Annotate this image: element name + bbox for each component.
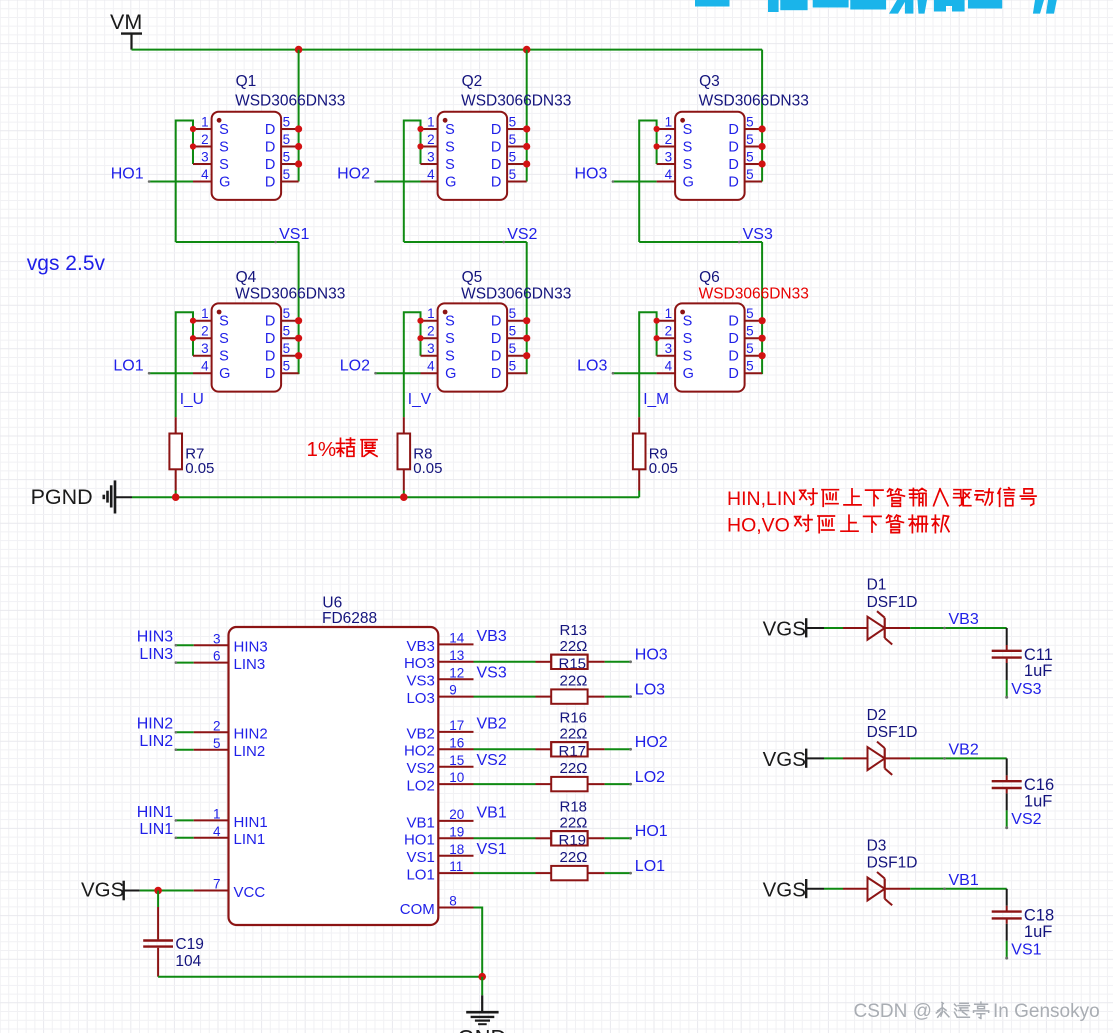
svg-text:1: 1 xyxy=(201,306,209,321)
svg-text:Q4: Q4 xyxy=(236,269,257,286)
wire LO1 from pin xyxy=(474,872,536,874)
svg-text:0.05: 0.05 xyxy=(185,460,214,477)
wire VB2 xyxy=(910,757,1007,759)
svg-text:D: D xyxy=(491,157,501,173)
svg-text:1: 1 xyxy=(665,306,673,321)
transistor Q2 xyxy=(421,112,527,200)
svg-text:COM: COM xyxy=(400,901,435,918)
svg-text:VS2: VS2 xyxy=(1011,811,1041,828)
svg-text:22Ω: 22Ω xyxy=(560,849,588,866)
svg-text:1: 1 xyxy=(201,115,209,130)
wire VB3 drop xyxy=(1006,628,1008,645)
svg-text:D: D xyxy=(728,331,738,347)
svg-text:22Ω: 22Ω xyxy=(560,638,588,655)
svg-text:VGS: VGS xyxy=(763,748,806,771)
svg-text:VB3: VB3 xyxy=(406,638,434,655)
svg-text:D: D xyxy=(728,122,738,138)
junction Q1 drain pins xyxy=(295,125,302,132)
junction GND xyxy=(478,973,486,981)
svg-text:HIN3: HIN3 xyxy=(234,639,268,656)
junction Q4 pin2 xyxy=(190,335,196,341)
svg-text:D: D xyxy=(491,314,501,330)
svg-text:4: 4 xyxy=(427,359,435,374)
svg-text:VGS: VGS xyxy=(763,878,806,901)
svg-text:S: S xyxy=(683,122,693,138)
svg-text:LIN3: LIN3 xyxy=(139,646,173,663)
svg-text:S: S xyxy=(219,331,229,347)
wire HO3 from pin xyxy=(474,661,536,663)
svg-text:5: 5 xyxy=(283,324,291,339)
svg-text:1: 1 xyxy=(427,306,435,321)
svg-text:I_U: I_U xyxy=(180,391,204,408)
svg-text:LIN1: LIN1 xyxy=(234,831,266,848)
svg-text:VS3: VS3 xyxy=(743,226,773,243)
svg-text:D: D xyxy=(265,140,275,156)
svg-text:3: 3 xyxy=(201,341,209,356)
junction Q4 pin1 xyxy=(190,318,196,324)
wire LO3 out xyxy=(605,696,631,698)
svg-text:S: S xyxy=(445,140,455,156)
svg-text:S: S xyxy=(683,157,693,173)
svg-text:D: D xyxy=(265,157,275,173)
svg-text:4: 4 xyxy=(665,167,673,182)
svg-text:G: G xyxy=(445,175,456,191)
svg-text:Q1: Q1 xyxy=(236,73,257,90)
wire VB3 xyxy=(910,627,1007,629)
svg-text:WSD3066DN33: WSD3066DN33 xyxy=(461,93,571,110)
transistor Q1 xyxy=(193,112,299,200)
wire LO2 out xyxy=(605,783,631,785)
svg-text:14: 14 xyxy=(449,631,465,646)
svg-text:VCC: VCC xyxy=(234,884,266,901)
svg-text:S: S xyxy=(219,349,229,365)
resistor R19 xyxy=(536,831,605,845)
svg-text:S: S xyxy=(219,314,229,330)
wire drain rail drop Q2 xyxy=(526,50,528,182)
svg-text:2: 2 xyxy=(201,132,209,147)
wire VGS to D2 xyxy=(824,757,843,759)
svg-text:LO1: LO1 xyxy=(406,867,434,884)
svg-text:HIN2: HIN2 xyxy=(234,726,268,743)
svg-text:3: 3 xyxy=(427,150,435,165)
svg-text:1: 1 xyxy=(665,115,673,130)
svg-text:D: D xyxy=(728,349,738,365)
svg-text:3: 3 xyxy=(665,150,673,165)
svg-text:R13: R13 xyxy=(560,622,588,639)
svg-text:Q6: Q6 xyxy=(699,269,720,286)
svg-text:3: 3 xyxy=(201,150,209,165)
svg-text:LO1: LO1 xyxy=(635,858,665,875)
svg-text:G: G xyxy=(445,366,456,382)
svg-text:2: 2 xyxy=(213,718,221,733)
svg-text:S: S xyxy=(445,331,455,347)
svg-text:5: 5 xyxy=(746,341,754,356)
svg-text:HO1: HO1 xyxy=(111,166,144,183)
wire VS1 below C18 xyxy=(1005,924,1008,960)
junction PGND R8 xyxy=(400,493,408,501)
svg-text:5: 5 xyxy=(283,132,291,147)
svg-text:22Ω: 22Ω xyxy=(560,725,588,742)
wire VGS to D1 xyxy=(824,627,843,629)
svg-text:S: S xyxy=(445,157,455,173)
svg-text:5: 5 xyxy=(283,167,291,182)
junction Q2 drain pins xyxy=(523,125,530,132)
resistor RLO3 xyxy=(536,689,605,703)
capacitor C18 xyxy=(992,906,1022,924)
svg-text:G: G xyxy=(683,366,694,382)
junction at Q1 drain rail xyxy=(295,46,303,54)
svg-text:5: 5 xyxy=(746,115,754,130)
svg-text:5: 5 xyxy=(509,341,517,356)
svg-text:S: S xyxy=(219,122,229,138)
svg-text:WSD3066DN33: WSD3066DN33 xyxy=(235,93,345,110)
diode D3 xyxy=(843,872,910,905)
svg-text:1uF: 1uF xyxy=(1024,662,1052,680)
svg-text:LO3: LO3 xyxy=(406,690,434,707)
svg-text:2: 2 xyxy=(427,132,435,147)
svg-text:WSD3066DN33: WSD3066DN33 xyxy=(699,93,809,110)
junction Q6 pin1 xyxy=(654,318,660,324)
junction Q1 pin2 xyxy=(190,143,196,149)
svg-text:2: 2 xyxy=(665,132,673,147)
wire HO1 out xyxy=(605,837,631,839)
svg-text:HO1: HO1 xyxy=(635,823,668,840)
resistor R9 xyxy=(633,417,646,497)
wire LO2 from pin xyxy=(474,783,536,785)
svg-text:D: D xyxy=(491,349,501,365)
wire LIN2 input xyxy=(176,749,194,751)
wire VGS to D3 xyxy=(824,888,843,890)
junction Q5 drain pins xyxy=(523,317,530,324)
svg-text:VB1: VB1 xyxy=(477,805,507,822)
junction Q3 pin2 xyxy=(654,143,660,149)
svg-text:HO,VO: HO,VO xyxy=(727,514,790,536)
transistor Q6 xyxy=(657,303,763,391)
svg-text:D: D xyxy=(491,122,501,138)
wire VB2 drop xyxy=(1006,758,1008,775)
wire LIN3 input xyxy=(176,662,194,664)
svg-text:I_M: I_M xyxy=(643,391,669,408)
label R19 overlapping xyxy=(551,831,587,849)
svg-text:LO3: LO3 xyxy=(577,357,607,374)
svg-text:2: 2 xyxy=(665,324,673,339)
svg-text:D: D xyxy=(265,366,275,382)
svg-text:LO3: LO3 xyxy=(635,681,665,698)
wire HO2 gate xyxy=(376,181,421,183)
svg-text:S: S xyxy=(445,349,455,365)
svg-text:LO2: LO2 xyxy=(635,769,665,786)
resistor RLO1 xyxy=(536,866,605,880)
svg-text:S: S xyxy=(683,314,693,330)
svg-text:D: D xyxy=(265,314,275,330)
junction Q6 drain pins xyxy=(759,317,766,324)
svg-text:VS3: VS3 xyxy=(477,664,507,681)
wire LO3 gate xyxy=(613,372,657,374)
svg-text:10: 10 xyxy=(449,770,464,785)
svg-text:5: 5 xyxy=(746,132,754,147)
svg-text:4: 4 xyxy=(201,359,209,374)
svg-text:5: 5 xyxy=(746,150,754,165)
svg-text:LIN2: LIN2 xyxy=(234,743,266,760)
resistor R8 xyxy=(398,417,411,497)
svg-text:5: 5 xyxy=(283,115,291,130)
svg-text:5: 5 xyxy=(509,115,517,130)
port VGS (D1) xyxy=(763,618,824,641)
wire VS3 below C11 xyxy=(1005,663,1008,699)
svg-text:LO2: LO2 xyxy=(406,778,434,795)
wire LO1 gate xyxy=(149,372,193,374)
svg-text:D: D xyxy=(728,140,738,156)
wire HIN3 input xyxy=(176,644,194,646)
svg-text:G: G xyxy=(219,366,230,382)
wire VB1 xyxy=(910,888,1007,890)
svg-text:5: 5 xyxy=(283,341,291,356)
svg-text:LO1: LO1 xyxy=(113,357,143,374)
svg-text:HO2: HO2 xyxy=(337,166,370,183)
svg-text:5: 5 xyxy=(509,150,517,165)
power flag VM xyxy=(110,10,142,50)
wire HO1 from pin xyxy=(474,837,536,839)
diode D2 xyxy=(843,742,910,775)
svg-text:D: D xyxy=(265,331,275,347)
svg-text:20: 20 xyxy=(449,807,464,822)
svg-text:0.05: 0.05 xyxy=(413,460,442,477)
svg-text:D: D xyxy=(728,314,738,330)
wire VS2 below C16 xyxy=(1005,793,1008,829)
junction Q2 pin2 xyxy=(417,143,423,149)
junction at Q2 drain rail xyxy=(523,46,531,54)
svg-text:5: 5 xyxy=(213,736,221,751)
resistor R7 xyxy=(169,417,182,497)
wire HIN1 input xyxy=(176,819,194,821)
svg-text:S: S xyxy=(445,314,455,330)
svg-text:DSF1D: DSF1D xyxy=(867,855,918,872)
svg-text:5: 5 xyxy=(746,359,754,374)
note 1% accuracy xyxy=(307,438,378,461)
wire VS1 drop to low side xyxy=(298,242,300,374)
wire VM rail xyxy=(132,49,763,51)
label R17 overlapping xyxy=(551,742,587,760)
svg-text:VB2: VB2 xyxy=(477,716,507,733)
svg-text:LO2: LO2 xyxy=(340,357,370,374)
svg-text:D: D xyxy=(265,175,275,191)
svg-text:Q2: Q2 xyxy=(462,73,483,90)
svg-text:HO3: HO3 xyxy=(574,166,607,183)
svg-text:S: S xyxy=(445,122,455,138)
svg-text:Q5: Q5 xyxy=(462,269,483,286)
svg-text:S: S xyxy=(219,140,229,156)
wire VS3 drop to low side xyxy=(761,242,763,374)
svg-text:1uF: 1uF xyxy=(1024,923,1052,941)
diode D1 xyxy=(843,611,910,644)
wire PGND rail xyxy=(132,496,639,498)
junction Q5 pin1 xyxy=(417,318,423,324)
svg-text:DSF1D: DSF1D xyxy=(867,724,918,741)
svg-text:7: 7 xyxy=(213,877,221,892)
decor cyan title fragment xyxy=(695,0,1057,14)
wire HO2 out xyxy=(605,748,631,750)
wire HIN2 input xyxy=(176,731,194,733)
svg-text:3: 3 xyxy=(665,341,673,356)
resistor RLO2 xyxy=(536,777,605,791)
svg-text:HO2: HO2 xyxy=(404,743,435,760)
resistor R15 xyxy=(536,655,605,669)
wire drain rail drop Q1 xyxy=(298,50,300,182)
svg-text:WSD3066DN33: WSD3066DN33 xyxy=(461,286,571,303)
wire VS1 horizontal xyxy=(176,241,299,243)
svg-text:S: S xyxy=(683,331,693,347)
junction PGND R7 xyxy=(172,493,180,501)
svg-text:WSD3066DN33: WSD3066DN33 xyxy=(235,286,345,303)
capacitor C19 xyxy=(143,907,173,977)
wire LO3 from pin xyxy=(474,696,536,698)
junction Q3 drain pins xyxy=(759,125,766,132)
port VGS (D2) xyxy=(763,748,824,771)
junction Q1 pin1 xyxy=(190,126,196,132)
svg-text:4: 4 xyxy=(665,359,673,374)
svg-text:LIN2: LIN2 xyxy=(139,733,173,750)
svg-text:3: 3 xyxy=(213,631,221,646)
capacitor C16 xyxy=(992,775,1022,793)
svg-text:HO3: HO3 xyxy=(404,655,435,672)
wire HO3 out xyxy=(605,661,631,663)
capacitor C11 xyxy=(992,645,1022,663)
svg-text:1: 1 xyxy=(427,115,435,130)
svg-text:HIN3: HIN3 xyxy=(137,629,174,646)
svg-text:FD6288: FD6288 xyxy=(322,610,377,627)
svg-text:D: D xyxy=(491,140,501,156)
svg-text:22Ω: 22Ω xyxy=(560,760,588,777)
svg-text:D: D xyxy=(728,157,738,173)
resistor R17 xyxy=(536,742,605,756)
svg-text:D: D xyxy=(265,122,275,138)
note HO,VO gates xyxy=(727,514,949,536)
junction Q3 pin1 xyxy=(654,126,660,132)
svg-text:12: 12 xyxy=(449,665,464,680)
svg-text:HO1: HO1 xyxy=(404,832,435,849)
wire source loop Q6 xyxy=(639,312,656,417)
svg-text:HIN1: HIN1 xyxy=(137,804,174,821)
transistor Q3 xyxy=(657,112,763,200)
svg-text:15: 15 xyxy=(449,753,464,768)
wire LO2 gate xyxy=(376,372,421,374)
svg-text:4: 4 xyxy=(213,824,221,839)
svg-text:18: 18 xyxy=(449,842,464,857)
svg-text:5: 5 xyxy=(509,167,517,182)
label R15 overlapping xyxy=(551,655,587,673)
svg-text:I_V: I_V xyxy=(408,391,432,408)
svg-text:5: 5 xyxy=(283,359,291,374)
svg-text:Q3: Q3 xyxy=(699,73,720,90)
ground PGND xyxy=(31,480,132,513)
svg-text:D3: D3 xyxy=(867,838,887,855)
svg-text:D: D xyxy=(728,175,738,191)
svg-text:GND: GND xyxy=(458,1026,507,1033)
svg-text:HO2: HO2 xyxy=(635,734,668,751)
wire HO3 gate xyxy=(613,181,657,183)
wire HO1 gate xyxy=(149,181,193,183)
svg-text:11: 11 xyxy=(449,859,463,874)
port VGS (VCC) xyxy=(81,879,140,902)
svg-text:D1: D1 xyxy=(867,577,887,594)
svg-text:HO3: HO3 xyxy=(635,647,668,664)
wire source loop Q3 xyxy=(639,121,656,243)
svg-text:In Gensokyo: In Gensokyo xyxy=(993,1001,1100,1022)
svg-text:VS1: VS1 xyxy=(477,841,507,858)
svg-text:1uF: 1uF xyxy=(1024,792,1052,810)
svg-text:4: 4 xyxy=(427,167,435,182)
svg-text:5: 5 xyxy=(509,132,517,147)
ground GND xyxy=(458,995,507,1033)
wire source loop Q1 xyxy=(176,121,193,243)
svg-text:VS3: VS3 xyxy=(1011,681,1041,698)
svg-text:VS1: VS1 xyxy=(279,226,309,243)
svg-text:VB3: VB3 xyxy=(477,628,507,645)
svg-text:R18: R18 xyxy=(560,798,588,815)
svg-text:VB1: VB1 xyxy=(406,814,434,831)
svg-text:VGS: VGS xyxy=(763,618,806,641)
svg-text:13: 13 xyxy=(449,648,464,663)
svg-text:1%: 1% xyxy=(307,438,337,461)
wire GND rail xyxy=(158,976,482,978)
wire source loop Q5 xyxy=(404,312,421,417)
svg-text:G: G xyxy=(683,175,694,191)
svg-text:HIN1: HIN1 xyxy=(234,814,268,831)
svg-text:C19: C19 xyxy=(175,936,203,953)
svg-text:LIN3: LIN3 xyxy=(234,656,266,673)
svg-text:VM: VM xyxy=(110,10,142,34)
svg-text:D: D xyxy=(265,349,275,365)
wire drain rail drop Q3 xyxy=(761,50,763,182)
svg-text:104: 104 xyxy=(175,953,201,970)
svg-text:5: 5 xyxy=(509,324,517,339)
svg-text:G: G xyxy=(219,175,230,191)
svg-text:S: S xyxy=(683,349,693,365)
wire LIN1 input xyxy=(176,837,194,839)
svg-text:CSDN @: CSDN @ xyxy=(854,1001,932,1022)
svg-text:S: S xyxy=(219,157,229,173)
svg-text:19: 19 xyxy=(449,824,464,839)
svg-text:vgs 2.5v: vgs 2.5v xyxy=(27,252,106,275)
IC U6 FD6288 xyxy=(194,627,474,925)
svg-text:VB2: VB2 xyxy=(406,725,434,742)
wire VS3 horizontal xyxy=(639,241,762,243)
svg-text:4: 4 xyxy=(201,167,209,182)
svg-text:8: 8 xyxy=(449,894,457,909)
svg-text:VGS: VGS xyxy=(81,879,124,902)
wire HO2 from pin xyxy=(474,748,536,750)
svg-text:VS1: VS1 xyxy=(406,849,434,866)
svg-text:22Ω: 22Ω xyxy=(560,673,588,690)
svg-text:2: 2 xyxy=(201,324,209,339)
wire C19 top xyxy=(157,891,159,908)
svg-text:LIN1: LIN1 xyxy=(139,821,173,838)
wire source loop Q2 xyxy=(404,121,421,243)
wire to ground symbol xyxy=(481,977,483,996)
svg-text:D2: D2 xyxy=(867,707,887,724)
svg-text:HIN2: HIN2 xyxy=(137,716,174,733)
svg-text:VS2: VS2 xyxy=(477,752,507,769)
port VGS (D3) xyxy=(763,878,824,901)
wire VS2 drop to low side xyxy=(526,242,528,374)
svg-text:17: 17 xyxy=(449,718,464,733)
svg-text:HIN,LIN: HIN,LIN xyxy=(727,488,796,510)
svg-text:VS2: VS2 xyxy=(406,760,434,777)
svg-text:VS1: VS1 xyxy=(1011,942,1041,959)
svg-text:5: 5 xyxy=(509,359,517,374)
svg-text:0.05: 0.05 xyxy=(649,460,678,477)
svg-text:PGND: PGND xyxy=(31,485,93,509)
